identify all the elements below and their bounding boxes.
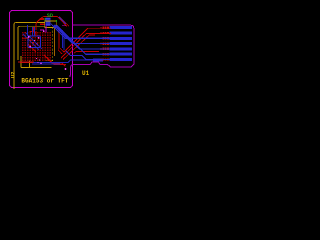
svg-text:SD: SD	[47, 13, 53, 19]
svg-text:U2: U2	[10, 71, 17, 78]
svg-text:U1: U1	[82, 70, 90, 77]
svg-text:BGA153 or TFT: BGA153 or TFT	[21, 77, 68, 84]
